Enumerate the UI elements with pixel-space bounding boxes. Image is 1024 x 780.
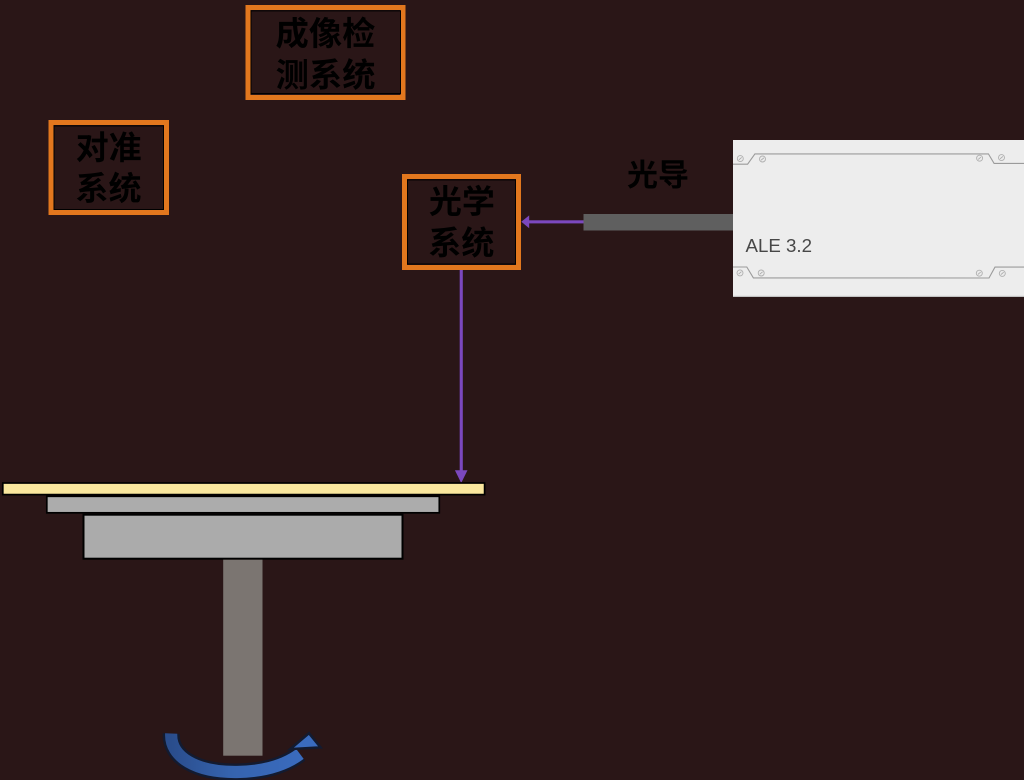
screw 1: [737, 156, 743, 162]
spindle column: [223, 560, 262, 756]
text line 对准: [77, 131, 141, 162]
panel bottom edge: [733, 295, 1024, 297]
text line 系统 (alignment): [77, 172, 141, 203]
light-guide cable (gray bar): [584, 214, 734, 231]
screw 3: [977, 155, 983, 161]
rotation arrow (blue curved): [171, 733, 320, 772]
box: optical system (光学系统): [405, 177, 519, 268]
stage plate: [47, 496, 440, 513]
wire: purple arrow from optical system down to wafer: [455, 269, 468, 484]
box: imaging detection system (成像检测系统): [248, 8, 403, 98]
screw 7: [976, 270, 982, 276]
panel top trim line: [733, 154, 1024, 164]
screw 2: [760, 156, 766, 162]
text 光导: [628, 159, 688, 188]
chuck block: [84, 515, 403, 559]
svg-text:ALE 3.2: ALE 3.2: [746, 235, 813, 256]
screw 8: [999, 270, 1005, 276]
text line 成像检: [276, 17, 374, 49]
text line 测系统: [277, 58, 375, 90]
wafer (yellow plate): [3, 483, 485, 495]
panel body: [733, 140, 1024, 297]
wire: purple arrow from cable into optical system box: [521, 215, 583, 228]
panel bottom trim line: [733, 267, 1024, 278]
laser unit photo panel (ALE 3.2): [733, 140, 1024, 297]
box: alignment system (对准系统): [51, 123, 167, 213]
text line 光学: [430, 185, 494, 216]
screw 4: [999, 155, 1005, 161]
screw 6: [758, 270, 764, 276]
text line 系统 (optical): [430, 226, 494, 257]
screw 5: [737, 270, 743, 276]
